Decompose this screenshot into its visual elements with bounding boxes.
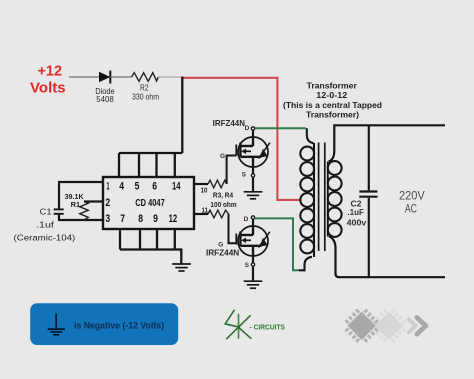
svg-text:R2: R2 bbox=[140, 83, 149, 92]
svg-text:- CIRCUITS: - CIRCUITS bbox=[250, 322, 286, 331]
svg-text:R3, R4: R3, R4 bbox=[213, 191, 234, 200]
svg-text:.1uf: .1uf bbox=[36, 219, 55, 229]
svg-text:11: 11 bbox=[202, 206, 209, 215]
svg-text:220V: 220V bbox=[399, 191, 425, 203]
svg-text:6: 6 bbox=[152, 180, 157, 192]
svg-text:5408: 5408 bbox=[96, 95, 114, 104]
svg-text:5: 5 bbox=[135, 180, 140, 192]
svg-text:Transformer: Transformer bbox=[307, 80, 358, 90]
svg-text:S: S bbox=[245, 262, 250, 269]
svg-text:AC: AC bbox=[405, 203, 417, 215]
svg-text:9: 9 bbox=[153, 213, 158, 225]
svg-text:Volts: Volts bbox=[30, 80, 66, 97]
svg-text:330 ohm: 330 ohm bbox=[132, 92, 159, 101]
svg-text:+12: +12 bbox=[38, 62, 63, 79]
svg-text:8: 8 bbox=[138, 213, 143, 225]
svg-text:400v: 400v bbox=[347, 218, 368, 227]
svg-text:D: D bbox=[244, 216, 249, 223]
svg-text:IRFZ44N: IRFZ44N bbox=[213, 118, 245, 128]
svg-text:IRFZ44N: IRFZ44N bbox=[206, 247, 239, 257]
svg-text:S: S bbox=[242, 171, 247, 178]
svg-text:4: 4 bbox=[119, 180, 124, 192]
svg-text:C2: C2 bbox=[351, 199, 363, 208]
svg-text:R1: R1 bbox=[71, 200, 81, 209]
svg-text:12: 12 bbox=[169, 213, 178, 225]
svg-text:G: G bbox=[218, 241, 223, 248]
svg-text:(This is a central Tapped: (This is a central Tapped bbox=[283, 100, 382, 110]
svg-text:G: G bbox=[220, 153, 225, 160]
svg-text:is Negative (-12 Volts): is Negative (-12 Volts) bbox=[74, 320, 164, 330]
svg-text:Transformer): Transformer) bbox=[306, 110, 359, 120]
svg-text:.1uF: .1uF bbox=[347, 208, 364, 217]
svg-text:14: 14 bbox=[172, 180, 181, 192]
svg-text:C1: C1 bbox=[40, 206, 52, 216]
svg-text:3: 3 bbox=[105, 213, 110, 225]
svg-text:D: D bbox=[245, 125, 250, 132]
svg-text:2: 2 bbox=[105, 197, 110, 209]
svg-text:(Ceramic-104): (Ceramic-104) bbox=[14, 232, 76, 242]
svg-text:10: 10 bbox=[201, 185, 208, 194]
svg-text:100 ohm: 100 ohm bbox=[210, 200, 236, 209]
svg-text:12-0-12: 12-0-12 bbox=[316, 90, 347, 100]
svg-text:7: 7 bbox=[120, 213, 125, 225]
svg-text:CD 4047: CD 4047 bbox=[135, 198, 165, 209]
svg-text:1: 1 bbox=[106, 180, 109, 192]
